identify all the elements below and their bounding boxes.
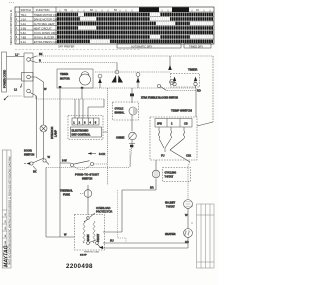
svg-text:SIGNAL: SIGNAL [115,111,125,115]
svg-text:RD: RD [185,240,189,244]
svg-text:MOTOR: MOTOR [60,77,70,81]
svg-text:COOL DOWN CIRC: COOL DOWN CIRC [34,31,57,35]
svg-text:PRINTED USA: PRINTED USA [84,251,99,254]
contact at 117 fan [116,63,118,71]
svg-text:MAYTAG: MAYTAG [3,245,9,267]
svg-text:TIMER: TIMER [60,72,68,76]
motor assembly [75,215,105,251]
svg-text:CB: CB [184,122,188,126]
cycling t-stat [152,170,160,178]
svg-text:HEAT CIRCUIT: HEAT CIRCUIT [34,26,52,30]
bus y99 corner down to dry control area [88,99,104,107]
wire L2 to bottom bus [30,93,36,100]
svg-text:TM-1: TM-1 [21,13,28,17]
svg-text:BR: BR [150,186,154,190]
svg-text:XTRA TUMBLE BLOCKS SWITCH: XTRA TUMBLE BLOCKS SWITCH [141,96,178,99]
right side wires [195,88,197,117]
svg-text:TIMED DRY: TIMED DRY [189,44,203,48]
svg-text:RD: RD [197,89,201,93]
row lines [15,12,214,39]
svg-text:DOOR: DOOR [24,149,32,153]
bottom label row boxes [117,44,181,49]
table column lines [15,7,214,44]
svg-text:FUNCTION: FUNCTION [36,8,50,12]
svg-text:5-W: 5-W [62,159,67,163]
svg-text:DRIVE MOTOR CIRC: DRIVE MOTOR CIRC [34,17,59,21]
svg-text:WH: WH [5,226,7,230]
svg-text:FU: FU [161,154,165,158]
svg-text:PUSH-TO-START: PUSH-TO-START [75,173,99,177]
corner marks top left [9,2,14,4]
cycle signal [113,102,139,120]
svg-text:TEMP SWITCH: TEMP SWITCH [171,109,192,113]
dashed line under table [15,49,140,51]
svg-text:1-2A: 1-2A [21,17,27,21]
contact at 138 [136,73,140,77]
svg-text:3-5B: 3-5B [21,26,27,30]
light tick texture across chart [59,13,213,44]
svg-text:TIMER: TIMER [188,68,198,72]
svg-text:BK: BK [33,170,37,174]
centrifugal switch [87,242,90,245]
chart bars (black with white ticks) [57,13,213,43]
svg-text:SIGNAL BUZZER: SIGNAL BUZZER [34,35,55,39]
terminal N box [22,73,34,82]
wire cord to N [7,78,22,80]
svg-text:R: R [39,59,41,63]
svg-text:THERMAL: THERMAL [60,189,73,193]
terminal block [24,53,33,97]
svg-text:CHIME: CHIME [116,136,125,140]
wire L1 second [30,61,37,63]
row number cells [16,13,18,44]
electronic dry control [68,116,103,140]
dashed cabinet line left [8,95,22,97]
svg-text:1/3 HP: 1/3 HP [80,255,87,257]
ground arrow under N [21,84,23,88]
XTRA switch [157,84,160,87]
switch / function text blobs [21,13,61,44]
x60 drop to push-to-start and motor bottom [59,99,61,163]
svg-text:EXTRA PRESS CARE: EXTRA PRESS CARE [34,40,60,44]
svg-text:2200498: 2200498 [66,263,93,270]
svg-text:POWER CORD: POWER CORD [3,70,7,88]
terminal L1 [27,58,31,62]
svg-text:BU: BU [110,239,114,243]
svg-text:HI-LIMIT: HI-LIMIT [165,201,176,205]
svg-text:SWITCH: SWITCH [21,8,31,12]
svg-text:CYCLE: CYCLE [115,107,124,111]
svg-text:TIMER MOTOR CIRC: TIMER MOTOR CIRC [34,13,60,17]
svg-text:FUSE: FUSE [63,193,70,197]
svg-text:OVERLOAD: OVERLOAD [96,206,111,210]
svg-text:T-STAT: T-STAT [166,205,175,209]
svg-text:BK: BK [39,52,43,56]
svg-text:SWITCH: SWITCH [82,177,92,181]
svg-text:DRY CONTROL: DRY CONTROL [72,133,91,137]
svg-text:START: START [96,233,100,242]
motor right wires [103,190,152,232]
svg-text:5-OR: 5-OR [99,152,105,156]
svg-text:ELECTRONIC: ELECTRONIC [72,129,89,133]
left title block [2,150,11,268]
svg-text:5-6A: 5-6A [21,31,27,35]
svg-text:AUTO REG HEAT: AUTO REG HEAT [34,22,55,26]
svg-text:SERIES 22004798 WIRING 11: SERIES 22004798 WIRING 11 [9,9,13,45]
wire N to door switch drop [30,77,43,98]
wire L1 BK top [30,56,37,59]
table outer border [15,7,214,44]
terminal L2 [27,89,31,93]
header tick marks [60,10,210,13]
svg-text:CAB: CAB [4,240,7,245]
svg-text:CYCLING: CYCLING [165,171,177,175]
svg-text:3PB: 3PB [157,122,162,126]
push to start [88,153,96,155]
wire down to cycle signal [131,88,133,103]
timer motor drops [60,88,82,99]
svg-text:PROTECTOR: PROTECTOR [96,210,112,214]
svg-text:AUTOMATIC DRY: AUTOMATIC DRY [131,44,152,48]
svg-text:OFF PREFER: OFF PREFER [58,44,75,48]
svg-text:LAMP: LAMP [54,130,58,137]
wire cord to L1 [7,56,25,58]
svg-text:9-1A: 9-1A [21,40,27,44]
svg-text:MAIN: MAIN [86,234,90,241]
svg-text:7-8B: 7-8B [21,35,27,39]
power cord [2,52,7,92]
svg-text:AUTO: AUTO [141,8,148,12]
timer contacts row [95,71,170,73]
bottom right legend table [197,204,215,268]
svg-text:HEATER: HEATER [165,232,176,236]
header dark cells [139,7,159,12]
interior lamp [40,125,47,132]
svg-text:3-4A: 3-4A [21,22,27,26]
svg-text:T-STAT: T-STAT [165,175,174,179]
contact at 100 [98,74,102,78]
svg-text:SWITCH: SWITCH [24,153,34,157]
svg-text:DRY: DRY [174,8,180,12]
svg-text:INTERIOR: INTERIOR [50,126,54,139]
bottom bus [103,247,188,249]
white tick marks over bars [59,13,211,44]
timer motor box [57,69,93,88]
svg-text:CB2: CB2 [186,154,192,158]
